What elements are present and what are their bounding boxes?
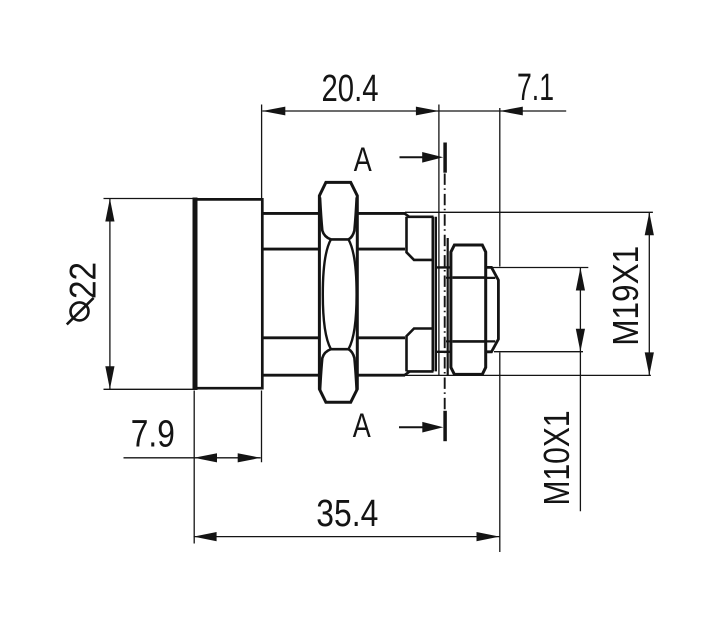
dim 20.4 / 7.1 line	[262, 110, 566, 112]
dim M10X1 line	[579, 268, 581, 512]
svg-text:M10X1: M10X1	[536, 411, 577, 506]
diameter symbol slash	[67, 298, 94, 325]
section tick top	[443, 143, 447, 173]
section arrow top	[400, 156, 425, 158]
section tick bottom	[443, 411, 447, 441]
barrel M19X1 outer lines (right of hex)	[357, 213, 405, 375]
hex flange nut (front), corner-on view	[319, 182, 357, 402]
dim 7.9 line	[124, 457, 261, 459]
arrowhead (7.1 right)	[500, 107, 523, 116]
arrowhead right (20.4/7.1 shared)	[416, 107, 439, 116]
barrel M19X1 outer lines (left of hex)	[262, 213, 320, 375]
dim 7.9 extension lines	[194, 391, 261, 544]
barrel inner lines (left of hex)	[262, 249, 320, 338]
dim M19X1 line	[648, 212, 650, 375]
hex middle facet arcs	[323, 239, 357, 349]
flange chamfer slants	[405, 213, 410, 375]
extension line stud end (lower)	[499, 353, 501, 553]
svg-text:M19X1: M19X1	[605, 246, 646, 346]
stud chamfer tangent lines	[486, 278, 496, 342]
svg-text:A: A	[353, 407, 371, 445]
extension line head top right	[261, 105, 263, 199]
panel washer line	[447, 238, 449, 376]
section line A-A dash-dot	[444, 174, 446, 410]
svg-text:20.4: 20.4	[322, 68, 379, 110]
rear nut facet lines	[452, 278, 485, 342]
hex upper chamfer arcs	[320, 198, 357, 240]
stud M10X1 end	[486, 267, 499, 351]
end-face double edge	[431, 217, 434, 372]
diameter symbol circle	[71, 302, 89, 320]
svg-text:7.1: 7.1	[517, 67, 554, 109]
svg-text:A: A	[354, 141, 372, 179]
extension line at panel front	[438, 105, 440, 376]
head (front flange / button, Ø22)	[195, 198, 262, 391]
dim 35.4 line	[194, 536, 500, 538]
dim Ø22 extension lines	[104, 199, 197, 390]
lower thread-end ring	[407, 329, 434, 372]
section arrow bottom	[399, 426, 426, 428]
dim M10X1 extension lines	[491, 268, 588, 352]
extension line stud end (upper)	[499, 108, 501, 267]
svg-text:22: 22	[63, 262, 104, 299]
hex facet boundary lines	[331, 239, 349, 349]
rear nut (M10), flat-on view	[451, 245, 486, 374]
stud pass-through ticks	[436, 267, 451, 351]
dim Ø22 line	[109, 199, 111, 390]
hex lower chamfer arcs	[320, 349, 357, 391]
arrowhead left (20.4)	[262, 107, 285, 116]
svg-text:7.9: 7.9	[131, 414, 175, 456]
svg-text:35.4: 35.4	[316, 493, 378, 535]
upper thread-end ring	[407, 217, 434, 260]
dim M19X1 extension lines	[405, 212, 653, 375]
barrel inner lines (right of hex)	[357, 249, 405, 338]
